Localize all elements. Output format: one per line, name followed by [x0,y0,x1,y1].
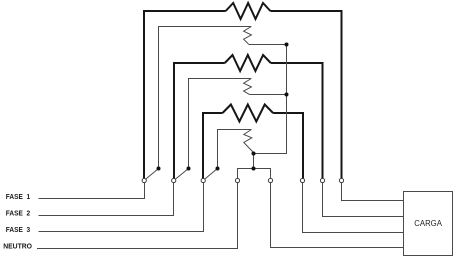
svg-text:NEUTRO: NEUTRO [3,244,32,251]
wire thin branch C left vertical and top lead [218,130,252,169]
wire FASE 2 line [39,181,174,216]
terminal contact S3 pivot [201,178,205,182]
wire NEUTRO line [37,181,238,249]
wire loop3 top right lead and right vertical [273,113,303,181]
switch S1 blade [145,169,158,180]
wire phase3 out to load [303,181,404,233]
load CARGA box [404,192,453,256]
resistor R1 [226,3,271,19]
wire R4 bottom lead to node [249,94,286,96]
wire thin branch B left vertical and top lead [189,79,252,169]
terminal contact load phase1 [339,178,343,182]
wire loop1 left and top lead (FASE 1 branch) [144,11,226,181]
node S2 fixed contact [187,167,191,171]
svg-text:FASE 2: FASE 2 [6,210,30,217]
node B junction [285,93,289,97]
resistor R6 (small) [244,130,254,153]
wire loop2 left and top lead (FASE 2 branch) [174,63,225,181]
node S1 fixed contact [157,167,161,171]
svg-text:CARGA: CARGA [414,218,442,228]
node S3 fixed contact [216,167,220,171]
wire thin branch A left vertical and top lead [159,27,252,169]
terminal contact neutro left [235,178,239,182]
wire neutral star point to bridge [253,154,255,169]
wire loop3 left and top lead (FASE 3 branch) [203,113,223,181]
wire FASE 1 line [39,181,145,199]
resistor R5 [223,105,274,122]
resistor R4 (small) [244,79,252,95]
terminal contact load phase2 [320,178,324,182]
resistor R3 [225,55,271,71]
node A junction [285,43,289,47]
wire neutral bridge to contacts [238,169,271,181]
wire FASE 3 line [39,181,204,232]
wire phase1 out to load [342,181,404,201]
node neutral bridge junction [252,167,256,171]
switch S3 blade [204,169,217,180]
terminal contact S1 pivot [142,178,146,182]
node C junction [252,152,256,156]
wire phase2 out to load [323,181,404,217]
terminal contact load phase3 [300,178,304,182]
terminal contact neutro right [268,178,272,182]
wire loop2 top right lead and right vertical [271,63,323,181]
wire neutral to load [271,181,404,248]
wire common node vertical (neutral point bus) [254,45,287,154]
svg-text:FASE 1: FASE 1 [6,194,30,201]
terminal contact S2 pivot [172,178,176,182]
svg-text:FASE 3: FASE 3 [6,227,30,234]
switch S2 blade [175,169,188,180]
resistor R2 (small) [244,27,252,45]
wire loop1 top right lead and right vertical [270,11,341,181]
wire R2 bottom lead to node [249,44,287,46]
